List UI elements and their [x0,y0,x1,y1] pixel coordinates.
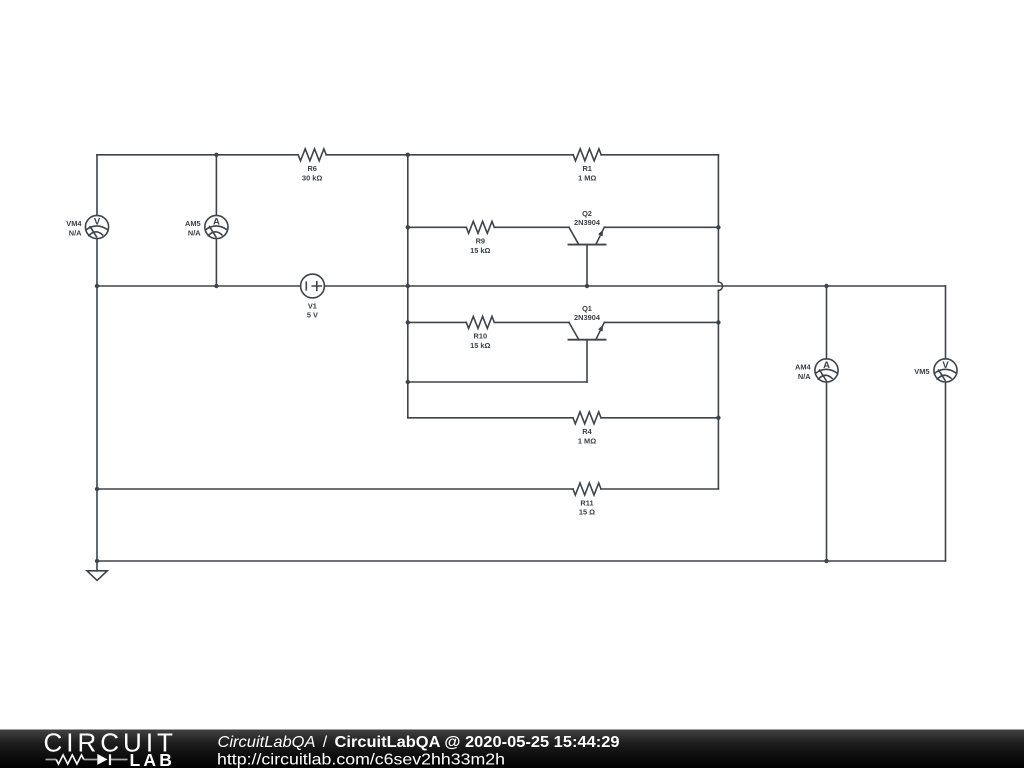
svg-text:R6: R6 [307,164,316,173]
wire left rail above VM4 [96,155,98,216]
ammeter AM5 body [205,215,228,238]
resistor R10 [466,316,494,328]
wire R11 row right segment [601,488,718,490]
svg-text:5 V: 5 V [307,311,318,320]
svg-text:R9: R9 [476,237,485,246]
transistor Q1 collector diagonal [569,322,579,339]
svg-text:Q2: Q2 [582,209,592,218]
node junction at 718.4,227.3 [716,225,720,229]
svg-text:R11: R11 [580,498,593,507]
voltage source V1 body [301,274,325,298]
wire middle rail left of V1 [97,285,301,287]
transistor Q2 emitter diagonal [596,227,605,244]
wire hop over middle rail [718,282,722,290]
svg-text:/: / [323,734,328,751]
svg-text:Q1: Q1 [582,304,592,313]
svg-text:R1: R1 [582,164,591,173]
node junction at 826.5,561 [824,559,828,563]
svg-text:15 Ω: 15 Ω [579,508,595,517]
svg-text:CircuitLabQA: CircuitLabQA [218,734,316,751]
resistor R6 [298,149,326,161]
wire bottom rail [97,560,946,562]
resistor R4 [573,412,601,424]
wire Q1 base row left segment [408,321,467,323]
wire Q1 emitter to right rail [604,321,718,323]
wire R9 to Q2 collector [494,226,569,228]
node junction at 407.8,382 [406,380,410,384]
svg-text:V: V [94,216,101,227]
wire right rail lower part [717,290,719,489]
logo diode triangle [97,754,107,765]
svg-text:AM4: AM4 [795,363,811,372]
svg-text:R4: R4 [582,427,592,436]
svg-text:1 MΩ: 1 MΩ [578,436,596,445]
node junction at 587,286 [585,284,589,288]
svg-text:2N3904: 2N3904 [574,218,601,227]
svg-text:N/A: N/A [798,372,811,381]
wire left rail below VM4 down to ground [96,239,98,561]
svg-text:VM5: VM5 [914,367,929,376]
transistor Q1 emitter diagonal [596,322,605,339]
svg-text:A: A [823,360,830,371]
logo resistor-diode line [46,759,128,761]
svg-text:1 MΩ: 1 MΩ [578,173,596,182]
svg-text:N/A: N/A [69,228,82,237]
wire VM5 branch below meter [945,382,947,561]
resistor R9 [466,221,494,233]
wire VM5 branch above meter [945,286,947,359]
wire R4 row right segment [601,417,718,419]
wire top rail middle segment [326,154,573,156]
node junction at 216.4,286 [214,284,218,288]
wire AM5 branch below meter [215,239,217,286]
svg-text:V: V [942,360,949,371]
node junction at 718.4,417.8 [716,416,720,420]
wire top rail left segment [97,154,298,156]
svg-text:15 kΩ: 15 kΩ [470,341,490,350]
wire R11 row left segment [97,488,573,490]
wire inner-left vertical rail [407,155,409,418]
svg-text:R10: R10 [474,332,488,341]
svg-text:N/A: N/A [188,228,201,237]
ammeter AM4 body [815,359,838,382]
logo diode cathode bar [109,754,111,765]
node junction at 407.8,322.4 [406,320,410,324]
svg-text:CircuitLabQA @ 2020-05-25 15:4: CircuitLabQA @ 2020-05-25 15:44:29 [335,734,620,751]
node junction at 97,561 [95,559,99,563]
wire Q2 base row left segment [408,226,467,228]
wire R4 row left segment [408,417,573,419]
wire Q1 base return row [408,381,587,383]
svg-text:V1: V1 [308,302,317,311]
transistor Q1 emitter arrow [598,325,603,332]
transistor Q2 emitter arrow [598,230,603,237]
wire middle rail right of V1 [324,285,945,287]
svg-text:VM4: VM4 [66,219,82,228]
wire AM4 branch below meter [826,382,828,561]
ground symbol [87,571,107,581]
wire Q2 emitter to right rail [604,226,718,228]
voltmeter VM4 body [85,215,108,238]
node junction at 97,286 [95,284,99,288]
transistor Q2 collector diagonal [569,227,579,244]
svg-text:2N3904: 2N3904 [574,313,601,322]
ground stub [96,561,98,571]
node junction at 407.8,227.3 [406,225,410,229]
voltmeter VM5 body [934,359,957,382]
node junction at 407.8,286 [406,284,410,288]
transistor Q2 base bar [569,244,606,246]
svg-text:15 kΩ: 15 kΩ [470,246,490,255]
resistor R11 [573,483,601,495]
wire AM5 branch above meter [215,155,217,216]
node junction at 216.4,154.8 [214,153,218,157]
resistor R1 [573,149,601,161]
wire top rail right segment [601,154,718,156]
wire R10 to Q1 collector [494,321,569,323]
transistor Q2 base stem [586,245,588,286]
transistor Q1 base stem [586,340,588,382]
node junction at 826.5,286 [824,284,828,288]
node junction at 407.8,154.8 [406,153,410,157]
svg-text:A: A [213,216,220,227]
logo resistor zigzag [56,755,84,764]
wire right rail upper part [717,155,719,282]
svg-text:AM5: AM5 [185,219,201,228]
svg-text:LAB: LAB [130,750,176,768]
node junction at 718.4,322.4 [716,320,720,324]
transistor Q1 base bar [569,339,606,341]
svg-text:http://circuitlab.com/c6sev2hh: http://circuitlab.com/c6sev2hh33m2h [217,752,505,768]
wire AM4 branch above meter [826,286,828,359]
svg-text:30 kΩ: 30 kΩ [302,173,322,182]
node junction at 97,489 [95,487,99,491]
